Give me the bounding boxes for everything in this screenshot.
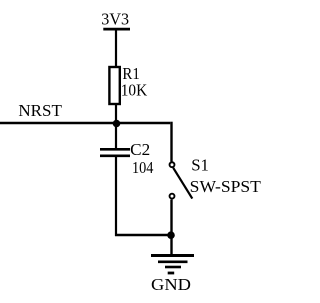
svg-text:NRST: NRST [18,101,62,120]
svg-text:GND: GND [151,275,191,294]
svg-text:S1: S1 [191,155,209,174]
svg-text:104: 104 [132,158,154,177]
svg-text:SW-SPST: SW-SPST [190,177,262,196]
svg-text:10K: 10K [121,81,148,100]
svg-text:C2: C2 [130,140,150,159]
svg-text:3V3: 3V3 [101,10,129,29]
